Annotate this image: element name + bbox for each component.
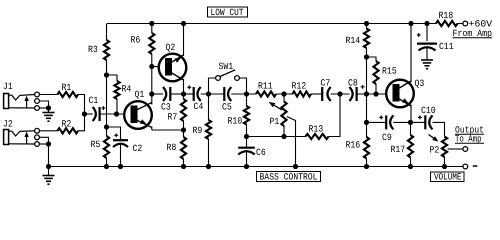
label C11 [439, 43, 453, 49]
wire C2 to ground rail [120, 145, 122, 167]
node P2 ground junction [442, 164, 447, 169]
resistor R8 [181, 130, 186, 167]
wire R11 to R12 [276, 93, 293, 95]
potentiometer P1 [269, 94, 296, 167]
label C1 [89, 97, 98, 103]
transistor Q2 [159, 54, 187, 82]
node C8 R14 junction [364, 91, 369, 96]
label R15 [383, 67, 397, 73]
capacitor C1 [93, 106, 106, 121]
resistor R16 [364, 122, 369, 166]
resistor R7 [181, 94, 186, 130]
wire C5 to node [231, 93, 256, 95]
resistor R15 [367, 57, 379, 94]
resistor R3 [104, 24, 109, 76]
capacitor C10 [411, 115, 433, 129]
node R6 top junction [149, 21, 154, 26]
resistor R5 [104, 127, 109, 167]
wire node to C2 [107, 127, 121, 140]
label C8 [348, 79, 357, 85]
node Q2 base junction [149, 64, 154, 69]
node Q1 emitter junction [181, 127, 186, 132]
wire R10 P1 R13 bottom row [247, 136, 306, 138]
node P1 top junction [281, 91, 286, 96]
label minus sign [473, 165, 478, 167]
wire C8 to Q3 base [357, 93, 387, 95]
node Q1 collector junction [149, 91, 154, 96]
label C4 [194, 103, 203, 109]
wire Q2 base [152, 66, 159, 68]
label SW1 [219, 63, 233, 69]
resistor R1 [58, 92, 79, 97]
wire Q2 emitter riser [183, 24, 185, 57]
node R16 ground junction [364, 164, 369, 169]
node J2 junction [46, 141, 51, 146]
wire J2 to ground rail [48, 144, 50, 167]
resistor R18 [436, 21, 458, 26]
label +60V [469, 20, 492, 26]
wire J2 sleeve [40, 143, 49, 145]
wire bottom ground rail [49, 166, 463, 168]
transistor Q1 [124, 101, 152, 129]
resistor R10 [244, 94, 249, 137]
wire SW1 right [240, 78, 247, 94]
label J2 [4, 120, 13, 126]
capacitor C8 [349, 85, 364, 101]
terminal +60V [463, 21, 468, 26]
label C10 [421, 107, 435, 113]
capacitor C5 [224, 87, 231, 101]
ground C11 [421, 60, 433, 69]
node R17 ground junction [408, 164, 413, 169]
node R10 bottom junction [244, 134, 249, 139]
wire node to C4 [184, 93, 194, 95]
wire C3 to node [170, 93, 183, 95]
capacitor C6 [238, 137, 255, 167]
wire Q1 emitter [152, 127, 184, 131]
resistor R4 [107, 75, 120, 114]
wire R14 node down to C9 node [366, 57, 368, 122]
wire node to C1 [85, 113, 93, 115]
resistor R12 [293, 91, 312, 96]
label From Amp [453, 30, 493, 38]
label R17 [391, 146, 404, 152]
wire J2 shunt to sleeve [40, 137, 49, 144]
label R18 [439, 12, 453, 18]
label VOLUME box [431, 172, 465, 182]
wire J2 tip to R2 [40, 130, 58, 132]
node C1 input junction [82, 111, 87, 116]
jack J2 [4, 128, 40, 146]
node C9 left junction [364, 120, 369, 125]
wire SW1 left [209, 78, 216, 94]
label R16 [346, 141, 360, 147]
label R14 [346, 37, 360, 43]
jack J1 [4, 92, 40, 110]
wire top supply rail [107, 23, 436, 25]
label C9 [382, 134, 391, 140]
resistor R2 [58, 128, 79, 133]
node R3 bottom junction [104, 72, 109, 77]
node R15 bottom junction [373, 91, 378, 96]
label R11 [259, 82, 273, 88]
wire C10 to P2 [433, 122, 445, 136]
label R3 [89, 46, 98, 52]
label Q2 [166, 44, 175, 52]
label R10 [228, 117, 242, 123]
resistor R6 [149, 24, 154, 95]
label C3 [161, 103, 170, 109]
wire J1 sleeve [40, 107, 49, 109]
wire R2 to C1 node [78, 114, 85, 131]
node Q2 emitter rail junction [181, 21, 186, 26]
label R5 [91, 141, 100, 147]
node C4 C5 junction [206, 91, 211, 96]
label BASS CONTROL box [257, 172, 321, 182]
node P1 wiper ground junction [293, 164, 298, 169]
label R2 [62, 120, 71, 126]
resistor R14 [364, 24, 369, 58]
label R1 [62, 84, 71, 90]
wire Q1 collector to C3 [152, 93, 163, 95]
label Output To Amp [455, 126, 484, 143]
node Q3 collector rail junction [408, 21, 413, 26]
node R14 top junction [364, 21, 369, 26]
node C3 C4 junction [181, 91, 186, 96]
label J1 [4, 83, 13, 89]
label R13 [309, 125, 323, 131]
label LOW CUT box [208, 7, 248, 17]
label R12 [292, 82, 305, 88]
label P1 [270, 118, 279, 124]
label P2 [430, 146, 439, 152]
resistor R13 [306, 134, 329, 139]
ground J1 [43, 108, 55, 121]
label C7 [321, 79, 330, 85]
label Q1 [135, 91, 144, 99]
switch SW1 [216, 70, 240, 81]
node P1 bottom junction [281, 134, 286, 139]
capacitor C9 [367, 115, 411, 129]
potentiometer P2 [429, 135, 463, 167]
resistor R9 [206, 94, 211, 167]
node R14 bottom junction [364, 54, 369, 59]
node R5 C2 junction [104, 124, 109, 129]
wire R12 to C7 [311, 93, 322, 95]
ground main [43, 167, 55, 185]
wire Q2 collector riser [183, 79, 185, 94]
capacitor C11 [417, 24, 437, 60]
terminal output plus [463, 147, 468, 152]
node Q1 base junction [114, 111, 119, 116]
wire Q1 collector riser [151, 94, 153, 105]
wire R13 to C7C8 node [329, 94, 341, 137]
node R8 ground junction [181, 164, 186, 169]
node R9 ground junction [206, 164, 211, 169]
node C11 top junction [424, 21, 429, 26]
wire R1 to C1 node [78, 95, 85, 115]
capacitor C2 [113, 133, 128, 147]
label C6 [256, 149, 265, 155]
node Q3 emitter junction [408, 120, 413, 125]
wire Q3 collector riser [410, 24, 412, 83]
node C7 C8 junction [337, 91, 342, 96]
transistor Q3 [386, 80, 414, 108]
node R5 ground junction [104, 164, 109, 169]
capacitor C4 [187, 85, 200, 101]
node C6 ground junction [244, 164, 249, 169]
label R4 [122, 85, 131, 91]
label C5 [222, 103, 231, 109]
resistor R17 [408, 122, 413, 166]
label Q3 [415, 80, 424, 88]
label R9 [193, 127, 202, 133]
capacitor C7 [322, 87, 331, 101]
wire C1 to Q1 base [100, 113, 125, 115]
node ground rail left end [46, 164, 51, 169]
node J1 ground junction [46, 105, 51, 110]
wire J1 tip to R1 [40, 94, 58, 96]
wire R18 to terminal [458, 23, 463, 25]
label R6 [131, 36, 140, 42]
wire C4 to node [201, 93, 225, 95]
resistor R11 [256, 91, 276, 96]
node C2 ground junction [118, 164, 123, 169]
wire C7 to C8 [331, 93, 350, 95]
label C2 [133, 145, 142, 151]
wire J1 shunt to ground [40, 101, 49, 108]
capacitor C3 [163, 87, 170, 101]
label R8 [167, 144, 176, 150]
wire Q3 emitter riser [410, 105, 412, 123]
terminal output minus [463, 164, 468, 169]
label R7 [168, 113, 177, 119]
node C5 R10 junction [244, 91, 249, 96]
wire R3 node down to R5/C2 node [106, 75, 108, 127]
